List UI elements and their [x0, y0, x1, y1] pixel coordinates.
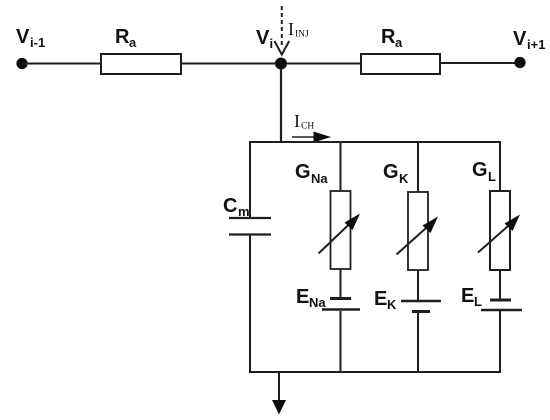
current source arrow IINJ (dashed)	[274, 6, 289, 55]
wire box left edge lower	[249, 235, 251, 373]
label ICH	[294, 111, 314, 132]
wire	[499, 270, 501, 299]
svg-text:K: K	[399, 171, 409, 186]
svg-text:R: R	[115, 26, 130, 48]
wire	[340, 269, 342, 297]
wire	[417, 313, 419, 372]
label GK	[383, 161, 409, 186]
svg-text:G: G	[295, 161, 311, 183]
svg-text:E: E	[374, 288, 387, 310]
resistor GK (variable)	[408, 192, 428, 270]
label Vi	[256, 27, 273, 51]
label Ra (right)	[381, 26, 403, 50]
node Vi+1	[514, 57, 525, 68]
label GNa	[295, 161, 328, 186]
arrow through GL	[478, 215, 520, 253]
arrow through GNa	[319, 214, 361, 254]
svg-text:R: R	[381, 26, 396, 48]
svg-text:a: a	[129, 35, 137, 50]
label Vi-1	[16, 26, 45, 50]
svg-text:i+1: i+1	[527, 37, 545, 52]
svg-text:L: L	[474, 294, 482, 309]
wire	[22, 63, 101, 65]
arrow through GK	[397, 217, 439, 255]
label EK	[374, 288, 397, 312]
resistor GL (variable)	[490, 191, 510, 270]
svg-text:a: a	[395, 35, 403, 50]
svg-text:G: G	[383, 161, 399, 183]
svg-text:K: K	[387, 297, 397, 312]
svg-text:I: I	[294, 111, 300, 131]
svg-text:L: L	[488, 169, 496, 184]
svg-text:V: V	[16, 26, 30, 48]
svg-text:V: V	[256, 27, 270, 49]
wire GNa branch top	[340, 142, 342, 191]
capacitor Cm	[229, 218, 271, 235]
label Ra (left)	[115, 26, 137, 50]
wire	[499, 311, 501, 372]
svg-text:Na: Na	[311, 171, 328, 186]
svg-text:Na: Na	[309, 295, 326, 310]
wire	[340, 311, 342, 372]
wire	[181, 63, 281, 65]
svg-text:i: i	[270, 36, 274, 51]
label Cm	[223, 195, 250, 219]
node Vi	[275, 58, 287, 70]
label ENa	[296, 286, 326, 310]
label GL	[472, 159, 496, 184]
wire box left edge upper	[249, 142, 251, 218]
svg-text:E: E	[461, 285, 474, 307]
label EL	[461, 285, 482, 309]
svg-text:C: C	[223, 195, 237, 217]
svg-text:E: E	[296, 286, 309, 308]
resistor GNa (variable)	[331, 191, 351, 269]
wire	[440, 62, 520, 64]
svg-text:INJ: INJ	[295, 30, 309, 40]
wire	[417, 270, 419, 300]
wire box top	[249, 141, 501, 143]
svg-text:m: m	[238, 204, 250, 219]
svg-text:V: V	[513, 28, 527, 50]
resistor Ra (right)	[361, 54, 440, 74]
node Vi-1	[16, 58, 27, 69]
resistor Ra (left)	[101, 54, 181, 74]
wire Vi down to membrane box	[280, 69, 282, 143]
wire GL branch top	[499, 142, 501, 191]
battery EK	[401, 301, 441, 312]
wire GK branch top	[417, 142, 419, 192]
wire	[287, 63, 361, 65]
svg-text:G: G	[472, 159, 488, 181]
label Vi+1	[513, 28, 545, 52]
battery ENa	[322, 299, 360, 310]
svg-text:I: I	[288, 19, 294, 39]
ground arrow	[272, 372, 286, 415]
wire box bottom	[249, 371, 501, 373]
svg-text:i-1: i-1	[30, 35, 45, 50]
battery EL	[481, 300, 522, 310]
arrow ICH	[292, 132, 331, 143]
svg-text:CH: CH	[301, 122, 314, 132]
label IINJ	[288, 19, 309, 40]
